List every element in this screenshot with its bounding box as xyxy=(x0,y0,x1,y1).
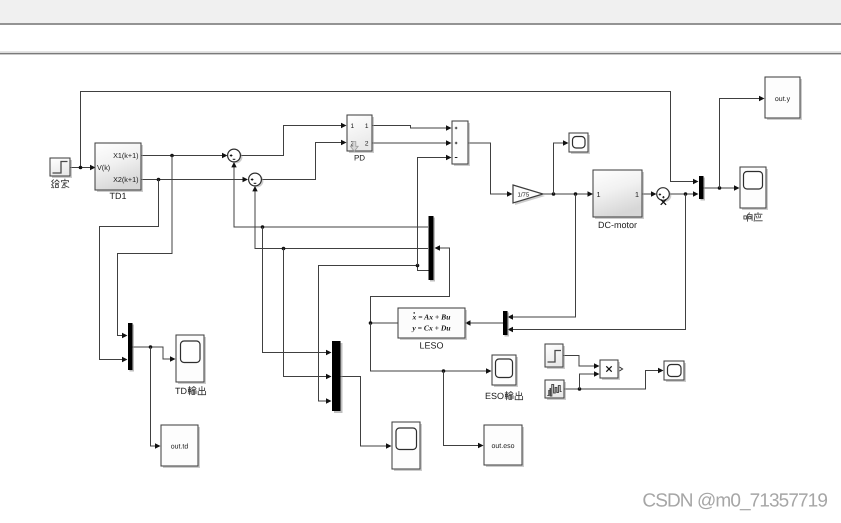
scope 响应 xyxy=(740,167,768,210)
scope TD输出 xyxy=(176,335,206,384)
wire: output mux to response scope xyxy=(703,185,740,190)
svg-text:1: 1 xyxy=(351,123,355,130)
wire: step2 to product input 1 xyxy=(563,356,600,369)
wire: z2 branch down to ESO mux input 2 xyxy=(284,249,332,380)
wire: LESO input mux output to LESO block xyxy=(465,320,503,325)
sum circle after DC-motor (with x mark) xyxy=(657,188,672,205)
svg-text:1: 1 xyxy=(365,123,369,130)
svg-text:X2(k+1): X2(k+1) xyxy=(113,175,138,184)
TD1 port labels xyxy=(97,151,139,184)
outport out.eso xyxy=(484,425,524,467)
DC-motor port numbers xyxy=(597,190,640,199)
subsystem PD xyxy=(347,115,374,153)
toolbar strip xyxy=(0,0,841,25)
wire: PD output 1 to rect-sum input 1 xyxy=(372,125,452,130)
scope (unnamed, bottom middle) xyxy=(392,422,422,471)
label 给定 xyxy=(52,179,69,188)
wire: z1 branch down to ESO mux input 1 xyxy=(263,227,332,355)
wire: PD output 2 to rect-sum input 2 xyxy=(372,140,452,145)
step source Step2 xyxy=(545,344,565,369)
label ESO输出 xyxy=(485,391,523,401)
wire: sum1 output to PD input 1 xyxy=(241,123,347,156)
scope5 (small, right) xyxy=(664,361,686,382)
product block (x) xyxy=(600,360,623,380)
svg-text:x = Ax + Bu: x = Ax + Bu xyxy=(412,313,451,322)
wire: TD1 X2 output to sum2 xyxy=(142,177,249,182)
svg-text:1: 1 xyxy=(597,190,601,199)
address bar divider xyxy=(0,51,841,54)
scope ESO输出 xyxy=(492,355,518,387)
sum circle sum1 xyxy=(228,149,243,163)
wire: branch up to out.y xyxy=(720,96,765,188)
svg-text:1: 1 xyxy=(635,190,639,199)
wire: TD1 X1 output to sum1 xyxy=(142,153,228,158)
sum circle sum2 xyxy=(249,173,264,187)
svg-text:ESO: ESO xyxy=(485,391,504,401)
svg-text:1/75: 1/75 xyxy=(518,191,530,198)
state-space block LESO xyxy=(398,308,467,340)
svg-text:TD: TD xyxy=(175,386,187,396)
svg-text:X1(k+1): X1(k+1) xyxy=(113,151,138,160)
wire: noise branch up to product input 2 xyxy=(580,371,600,389)
wire: LESO output loop to demux xyxy=(369,245,450,325)
svg-text:out.y: out.y xyxy=(775,96,791,103)
wire: setpoint to TD1 input xyxy=(71,165,96,170)
svg-text:CSDN @m0_71357719: CSDN @m0_71357719 xyxy=(642,491,827,512)
svg-text:y = Cx + Du: y = Cx + Du xyxy=(411,324,450,333)
wire: plant output y branch down to LESO input mux xyxy=(508,194,686,332)
label TD输出 xyxy=(175,386,206,396)
LESO demux (tall thin) xyxy=(429,216,436,282)
wire: demux z2 to sum2 bottom xyxy=(252,186,428,250)
wire: gain output to DC-motor xyxy=(543,191,593,196)
wire: ESO mux output to scope xyxy=(340,377,392,449)
svg-text:TD1: TD1 xyxy=(109,191,126,201)
label 响应 xyxy=(744,213,762,222)
rect sum block (+ + -) xyxy=(452,121,470,166)
subsystem DC-motor xyxy=(593,170,644,219)
wire: gain output branch up to scope1 xyxy=(554,140,569,194)
PD port numbers xyxy=(351,123,369,148)
svg-text:PD: PD xyxy=(354,154,365,163)
wire: TD1 X1 branch down to TD mux input 1 xyxy=(118,156,173,339)
wire: rect-sum output to gain 1/75 xyxy=(468,143,513,197)
svg-text:2: 2 xyxy=(365,141,369,148)
svg-text:LESO: LESO xyxy=(419,341,443,351)
output mux (before response scope) xyxy=(699,176,705,201)
outport out.y xyxy=(765,77,802,120)
wire: branch down to out.eso xyxy=(444,371,484,448)
wire: sum2 output to PD input 2 xyxy=(262,140,347,180)
TD mux (small, left) xyxy=(128,323,134,372)
wire: TD1 X2 branch down to TD mux input 2 xyxy=(100,180,159,363)
svg-text:out.eso: out.eso xyxy=(492,443,515,450)
noise source (waveform icon) xyxy=(545,380,566,400)
wire: demux z1 to sum1 bottom xyxy=(231,162,428,229)
wire: noise source to scope5 xyxy=(564,368,664,391)
wire: z3 branch up to rect-sum minus input xyxy=(418,155,452,266)
svg-text:DC-motor: DC-motor xyxy=(598,220,637,230)
step source Step (给定) xyxy=(50,158,72,178)
scope1 (small, above DC-motor) xyxy=(569,133,590,154)
svg-text:V(k): V(k) xyxy=(97,163,110,172)
PD gray badge arrow xyxy=(350,142,358,152)
wire: LESO output branch down to ESO scope xyxy=(371,323,492,374)
svg-text:out.td: out.td xyxy=(171,443,189,451)
wire: branch down to out.td xyxy=(151,347,161,449)
wire: DC-motor output to sum circle xyxy=(642,191,657,196)
wire: control u branch down to LESO input mux xyxy=(508,194,576,320)
gain 1/75 xyxy=(513,185,545,205)
subsystem TD1 xyxy=(95,143,143,192)
ESO mux (thick) xyxy=(332,341,343,413)
LESO input mux (2 input, right of LESO) xyxy=(503,311,509,337)
wire: TD mux output to TD scope xyxy=(132,345,176,362)
wire: sum circle output to output mux xyxy=(669,191,698,196)
wire: demux z3 to ESO mux input 3 xyxy=(319,264,429,404)
wire: setpoint feedback to output mux (top line) xyxy=(79,92,699,185)
outport out.td xyxy=(161,425,200,468)
